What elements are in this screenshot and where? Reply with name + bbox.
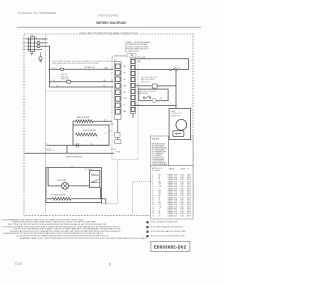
connector P2 (131, 58, 136, 114)
partition dashed corner lower (101, 160, 118, 204)
vertical neutral feed (175, 70, 177, 109)
svg-text:P1: P1 (115, 60, 117, 62)
svg-text:A WARNING LABEL OF ALL CIRCUIT: A WARNING LABEL OF ALL CIRCUITS AND ABOV… (20, 237, 148, 240)
svg-text:E8503082-D02: E8503082-D02 (154, 244, 187, 249)
svg-text:OVEN LAMP: OVEN LAMP (57, 179, 68, 182)
svg-text:NO. CODE: NO. CODE (152, 170, 160, 172)
svg-text:COLOR: COLOR (152, 139, 159, 141)
P2 pin 6 (131, 89, 135, 93)
bullet note at y=222.7 (146, 221, 148, 223)
svg-text:2-4 OR: 2-4 OR (109, 124, 115, 126)
power row N W (27, 42, 48, 44)
P2 pin 2 (131, 65, 135, 69)
svg-text:NOTE 3 GROUND LEAD MUST BE SEC: NOTE 3 GROUND LEAD MUST BE SECURED (150, 230, 186, 233)
P2 pin 1 (131, 59, 135, 63)
svg-text:4-6 BU: 4-6 BU (111, 149, 117, 151)
svg-text:EVS: EVS (15, 262, 22, 266)
svg-text:12AWG 3.31: 12AWG 3.31 (168, 214, 178, 217)
svg-text:FFEF3015PWC: FFEF3015PWC (98, 14, 120, 18)
svg-text:3-2: 3-2 (52, 80, 55, 82)
svg-text:2-1: 2-1 (56, 85, 58, 87)
neutral row with door switch (136, 69, 189, 71)
lamp circle on box edge (152, 98, 156, 102)
partition dashed corner right (133, 182, 151, 216)
fuse circle 2 (37, 45, 40, 48)
broil element box (73, 125, 109, 145)
door lock switch box (139, 89, 168, 101)
bullet note at y=227.6 (146, 226, 148, 228)
P1 pin 7 (115, 103, 120, 108)
top right wire (136, 59, 189, 70)
connector P1 (115, 62, 122, 120)
svg-text:5-2: 5-2 (45, 144, 47, 146)
svg-text:TEMP: TEMP (181, 169, 185, 171)
svg-text:WIRING DIAGRAM: WIRING DIAGRAM (96, 21, 126, 25)
svg-text:1-2: 1-2 (52, 68, 55, 70)
J1A label box (127, 54, 136, 57)
svg-text:DOOR LOCK MOTOR: DOOR LOCK MOTOR (141, 77, 158, 79)
legend and table outer box (151, 136, 194, 219)
part number box E8503082-D02 (151, 241, 190, 251)
drop wire (66, 145, 68, 153)
power row L1 BK (27, 38, 48, 40)
P2 pin 3 (131, 71, 135, 75)
P1 pin 6 (115, 97, 120, 102)
P2 pin 9 (131, 107, 135, 111)
lower wire with labels (47, 144, 110, 146)
svg-text:WIRE COLOR: WIRE COLOR (152, 168, 163, 170)
svg-text:8: 8 (112, 112, 113, 114)
svg-text:CONVECTION: CONVECTION (171, 113, 182, 115)
svg-text:TB: TB (31, 35, 33, 37)
P2 pin 7 (131, 95, 135, 99)
svg-text:Publication No. 5995599049: Publication No. 5995599049 (18, 11, 56, 15)
svg-text:8: 8 (109, 262, 111, 266)
header rule (17, 26, 201, 28)
svg-text:THIS RANGE MUST BE GROUNDED PE: THIS RANGE MUST BE GROUNDED PER LOCAL CO… (52, 62, 99, 65)
fan motor circle (176, 119, 187, 130)
power row L2 R (27, 45, 48, 47)
strip bottom stubs (117, 120, 119, 133)
svg-text:6-3: 6-3 (137, 84, 139, 86)
svg-text:5-7: 5-7 (105, 133, 107, 135)
partition dashed line horizontal (46, 90, 113, 92)
wire row N (50, 81, 114, 83)
svg-text:2-4: 2-4 (104, 120, 106, 122)
svg-text:4: 4 (112, 86, 113, 88)
terminal block TB (31, 37, 35, 52)
P2 pin 4 (131, 77, 135, 81)
inline fuse oval (60, 68, 64, 70)
bullet note at y=236.5 (146, 235, 148, 237)
bottom right row (136, 105, 177, 107)
svg-text:SEE NOTE 4: SEE NOTE 4 (141, 81, 151, 83)
svg-text:NOTE 2 SEE INSTALLATION GUIDE: NOTE 2 SEE INSTALLATION GUIDE FOR (150, 226, 183, 229)
P1 pin 5 (115, 90, 120, 95)
svg-text:NOTE 1 AT RATED VOLTAGE 240V: NOTE 1 AT RATED VOLTAGE 240V (150, 221, 178, 224)
svg-text:BAKE ELEMENT: BAKE ELEMENT (77, 116, 90, 119)
svg-text:1: 1 (112, 66, 113, 68)
lamp wires (48, 185, 62, 187)
safety thermostat wire (25, 152, 115, 154)
svg-text:5: 5 (112, 92, 113, 94)
svg-text:8-1: 8-1 (137, 104, 139, 106)
P1 pin 3 (115, 77, 120, 82)
svg-text:1 W: 1 W (103, 80, 106, 82)
svg-text:1-3: 1-3 (90, 144, 92, 146)
console partition dashed line (45, 34, 47, 216)
aux connector box 2 (115, 140, 121, 144)
P1 pin 4 (115, 84, 120, 89)
svg-text:2: 2 (112, 73, 113, 75)
svg-text:N W: N W (22, 43, 26, 45)
svg-text:2 W: 2 W (123, 73, 126, 75)
svg-text:P5: P5 (35, 37, 37, 39)
svg-text:P2: P2 (131, 54, 133, 56)
power row GN (27, 49, 43, 51)
svg-text:L1 BK: L1 BK (22, 39, 28, 41)
bullet note at y=232.1 (146, 231, 148, 233)
P1 pin 8 (115, 110, 120, 115)
svg-text:NOTE 4 DOOR LOCK SW SHOWN IN O: NOTE 4 DOOR LOCK SW SHOWN IN OPEN (150, 236, 185, 238)
svg-text:BROIL ELEMENT: BROIL ELEMENT (83, 130, 96, 132)
svg-text:OVEN CIRCUIT/CIRCUITS DE NEMA-: OVEN CIRCUIT/CIRCUITS DE NEMA-/CONDUIT V… (79, 33, 139, 36)
svg-text:6: 6 (112, 99, 113, 101)
convection fan box (169, 109, 191, 140)
fan capacitor rounded box (173, 131, 184, 137)
oven door light relay box (46, 168, 102, 203)
aux connector box 1 (115, 133, 120, 137)
wire row L1 (50, 68, 114, 70)
svg-text:Y YELLOW/JAUNE: Y YELLOW/JAUNE (152, 163, 168, 166)
svg-text:19: 19 (152, 215, 154, 217)
fuse circle 1 (37, 42, 40, 45)
wire row L2 (50, 86, 114, 88)
P2 pin 8 (131, 101, 135, 105)
P1 pin 1 (115, 64, 120, 69)
cabinet dashed border (24, 34, 193, 216)
svg-text:5-4: 5-4 (71, 166, 73, 168)
svg-text:1 W: 1 W (42, 43, 45, 45)
svg-text:3: 3 (112, 79, 113, 81)
svg-text:REMOVED WHEN USED WITH: REMOVED WHEN USED WITH (125, 49, 149, 51)
P2 pin 5 (131, 83, 135, 87)
chassis ground symbol (30, 52, 33, 56)
svg-text:SAFETY THERMOST: SAFETY THERMOST (66, 155, 82, 158)
inline breaker oval (66, 80, 71, 83)
svg-text:4-6: 4-6 (160, 98, 162, 100)
connector assembly dashed box (112, 57, 138, 160)
svg-text:7: 7 (112, 105, 113, 107)
svg-text:DOOR LOCK SWITCH: DOOR LOCK SWITCH (140, 91, 156, 93)
main feed wire vertical (49, 46, 51, 87)
P1 pin 2 (115, 71, 120, 76)
diagram title on border (78, 31, 139, 35)
earth ground circle (40, 52, 42, 57)
MDL row (136, 85, 177, 87)
